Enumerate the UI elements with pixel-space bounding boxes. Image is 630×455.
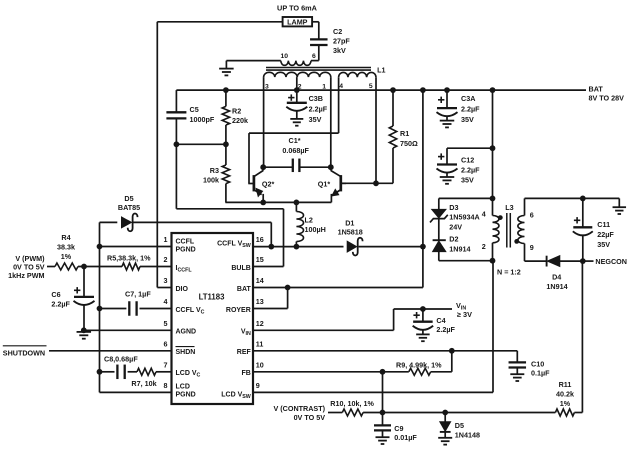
svg-text:R3: R3 — [210, 166, 219, 175]
svg-text:6: 6 — [312, 53, 316, 60]
svg-text:Q2*: Q2* — [262, 180, 275, 189]
svg-text:4: 4 — [339, 83, 343, 90]
svg-text:35V: 35V — [597, 240, 610, 249]
svg-text:220k: 220k — [232, 116, 248, 125]
svg-text:2.2µF: 2.2µF — [461, 105, 480, 114]
svg-text:FB: FB — [241, 370, 250, 377]
svg-text:0.1µF: 0.1µF — [531, 369, 550, 378]
svg-text:C8,0.68µF: C8,0.68µF — [104, 355, 138, 364]
svg-text:8V TO 28V: 8V TO 28V — [589, 94, 625, 103]
svg-text:≥ 3V: ≥ 3V — [457, 310, 472, 319]
svg-text:2.2µF: 2.2µF — [461, 165, 480, 174]
svg-text:L3: L3 — [505, 203, 513, 212]
svg-text:0.068µF: 0.068µF — [282, 146, 309, 155]
svg-text:2.2µF: 2.2µF — [309, 105, 328, 114]
svg-text:R1: R1 — [400, 129, 409, 138]
svg-text:L1: L1 — [377, 65, 385, 74]
svg-text:SHUTDOWN: SHUTDOWN — [3, 348, 45, 357]
svg-text:9: 9 — [256, 381, 260, 390]
svg-text:3: 3 — [164, 276, 168, 285]
svg-text:1N5934A: 1N5934A — [449, 212, 479, 221]
svg-text:2: 2 — [298, 84, 302, 91]
svg-text:NEGCON: NEGCON — [595, 257, 627, 266]
svg-text:CCFL: CCFL — [176, 238, 195, 245]
svg-text:R2: R2 — [232, 107, 241, 116]
svg-text:1N5818: 1N5818 — [338, 228, 363, 237]
svg-text:C4: C4 — [436, 316, 445, 325]
svg-text:PGND: PGND — [176, 246, 196, 253]
svg-text:D1: D1 — [345, 218, 354, 227]
svg-text:SHDN: SHDN — [176, 349, 196, 356]
svg-text:LT1183: LT1183 — [199, 293, 226, 302]
svg-text:C11: C11 — [597, 220, 610, 229]
svg-text:24V: 24V — [449, 222, 462, 231]
svg-text:9: 9 — [530, 243, 534, 252]
svg-text:C10: C10 — [531, 359, 544, 368]
svg-text:10: 10 — [256, 361, 264, 370]
svg-text:C3A: C3A — [461, 94, 475, 103]
svg-text:2: 2 — [164, 255, 168, 264]
svg-text:100k: 100k — [203, 175, 219, 184]
svg-text:R5,38.3k, 1%: R5,38.3k, 1% — [107, 254, 151, 263]
svg-text:Q1*: Q1* — [318, 180, 331, 189]
svg-text:38.3k: 38.3k — [57, 242, 75, 251]
svg-text:C5: C5 — [190, 105, 199, 114]
svg-text:C7, 1µF: C7, 1µF — [125, 290, 151, 299]
svg-text:ROYER: ROYER — [226, 307, 251, 314]
svg-text:PGND: PGND — [176, 391, 196, 398]
svg-text:1%: 1% — [61, 252, 72, 261]
svg-text:D5: D5 — [455, 421, 464, 430]
svg-text:AGND: AGND — [176, 329, 197, 336]
svg-text:27pF: 27pF — [333, 37, 350, 46]
svg-text:8: 8 — [164, 381, 168, 390]
svg-text:2.2µF: 2.2µF — [436, 325, 455, 334]
svg-text:22µF: 22µF — [597, 230, 614, 239]
svg-text:3kV: 3kV — [333, 46, 346, 55]
svg-text:100µH: 100µH — [305, 225, 326, 234]
svg-text:35V: 35V — [309, 115, 322, 124]
svg-text:D5: D5 — [124, 194, 133, 203]
svg-text:N = 1:2: N = 1:2 — [497, 268, 521, 277]
svg-text:1N914: 1N914 — [449, 244, 470, 253]
svg-text:R11: R11 — [559, 380, 572, 389]
svg-text:R4: R4 — [61, 233, 70, 242]
svg-text:2.2µF: 2.2µF — [51, 299, 70, 308]
svg-text:1%: 1% — [560, 399, 571, 408]
svg-text:1000pF: 1000pF — [190, 115, 215, 124]
svg-text:16: 16 — [256, 235, 264, 244]
svg-text:13: 13 — [256, 297, 264, 306]
svg-text:11: 11 — [256, 340, 264, 349]
svg-text:UP TO 6mA: UP TO 6mA — [277, 4, 318, 13]
svg-text:1kHz PWM: 1kHz PWM — [8, 271, 44, 280]
svg-text:1: 1 — [322, 84, 326, 91]
svg-text:C2: C2 — [333, 27, 342, 36]
svg-text:C3B: C3B — [309, 94, 323, 103]
svg-text:BAT: BAT — [589, 85, 604, 94]
svg-text:BAT85: BAT85 — [118, 203, 140, 212]
svg-text:D3: D3 — [449, 203, 458, 212]
svg-text:1N914: 1N914 — [546, 282, 567, 291]
svg-text:5: 5 — [369, 83, 373, 90]
svg-text:DIO: DIO — [176, 286, 189, 293]
svg-text:12: 12 — [256, 319, 264, 328]
svg-text:R10, 10k, 1%: R10, 10k, 1% — [330, 399, 374, 408]
svg-text:C9: C9 — [394, 424, 403, 433]
svg-text:D2: D2 — [449, 234, 458, 243]
svg-text:L2: L2 — [305, 215, 313, 224]
svg-text:5: 5 — [164, 319, 168, 328]
svg-text:4: 4 — [164, 297, 168, 306]
svg-text:14: 14 — [256, 276, 264, 285]
svg-text:D4: D4 — [552, 273, 561, 282]
svg-text:35V: 35V — [461, 175, 474, 184]
svg-text:2: 2 — [482, 242, 486, 251]
svg-text:C1*: C1* — [289, 136, 301, 145]
svg-text:R7, 10k: R7, 10k — [131, 379, 156, 388]
svg-text:35V: 35V — [461, 115, 474, 124]
svg-text:REF: REF — [237, 349, 252, 356]
svg-text:7: 7 — [164, 361, 168, 370]
svg-text:15: 15 — [256, 255, 264, 264]
svg-text:10: 10 — [281, 53, 289, 60]
svg-text:40.2k: 40.2k — [556, 390, 574, 399]
svg-text:BAT: BAT — [237, 286, 252, 293]
svg-text:LCD: LCD — [176, 383, 190, 390]
svg-text:BULB: BULB — [231, 265, 250, 272]
svg-text:1: 1 — [164, 235, 168, 244]
svg-text:6: 6 — [164, 340, 168, 349]
svg-text:6: 6 — [530, 211, 534, 220]
svg-text:1N4148: 1N4148 — [455, 430, 480, 439]
svg-text:750Ω: 750Ω — [400, 139, 418, 148]
svg-text:C12: C12 — [461, 155, 474, 164]
svg-text:4: 4 — [482, 209, 486, 218]
svg-text:R9, 4.99k, 1%: R9, 4.99k, 1% — [396, 360, 442, 369]
svg-text:C6: C6 — [51, 290, 60, 299]
svg-text:LAMP: LAMP — [287, 18, 308, 27]
svg-text:3: 3 — [265, 84, 269, 91]
svg-text:V (CONTRAST): V (CONTRAST) — [273, 404, 325, 413]
svg-text:0.01µF: 0.01µF — [394, 433, 417, 442]
svg-text:0V TO 5V: 0V TO 5V — [294, 413, 326, 422]
